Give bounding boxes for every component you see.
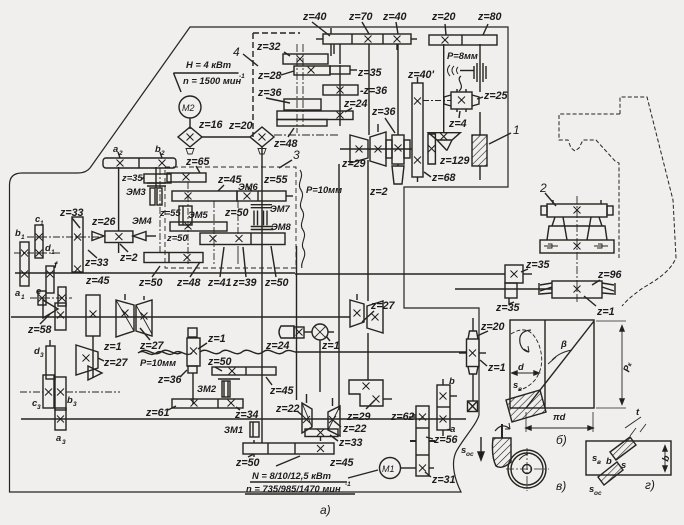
gear z35 lower [505, 283, 517, 304]
lead screw P=10mm vertical wavy [299, 170, 304, 268]
gear z=35 small [141, 174, 171, 205]
svg-text:ЭМ8: ЭМ8 [271, 221, 292, 232]
svg-text:г): г) [645, 478, 655, 492]
vertical shaft x193 down [192, 373, 194, 404]
clutch EM7 EM8 [251, 205, 274, 230]
vertical x369 from top bar [368, 50, 370, 135]
bevel z129 pair [428, 133, 460, 164]
svg-text:ЭМ5: ЭМ5 [188, 209, 209, 220]
svg-text:z=35: z=35 [495, 302, 521, 314]
gear circle [506, 448, 549, 491]
svg-text:z=2: z=2 [369, 186, 388, 198]
gear a3 [55, 408, 66, 430]
svg-text:z=20: z=20 [480, 321, 505, 333]
table pedestal [547, 217, 607, 240]
svg-text:ЭМ3: ЭМ3 [126, 186, 147, 197]
svg-text:z=33: z=33 [338, 437, 363, 449]
svg-text:z=20: z=20 [228, 120, 253, 132]
gear f [46, 266, 54, 293]
rotation arrow [520, 330, 531, 352]
svg-text:3: 3 [293, 148, 300, 162]
gear bar bottom z50 z45 [243, 440, 334, 457]
svg-text:z=56: z=56 [433, 434, 458, 446]
svg-text:-а: -а [447, 423, 455, 434]
bevel pair z27 center-right [350, 294, 383, 380]
gear z=36 mid bar [323, 85, 358, 95]
svg-text:z=58: z=58 [27, 324, 52, 336]
svg-text:z=20: z=20 [431, 11, 456, 23]
svg-text:3: 3 [73, 401, 77, 408]
gear z=33 tall [72, 217, 83, 273]
svg-text:б): б) [556, 433, 567, 447]
svg-text:z=1: z=1 [207, 333, 226, 345]
svg-text:t: t [636, 406, 640, 417]
shaft to bevel z129 [443, 44, 445, 133]
worm z1 z96 table [539, 281, 615, 298]
bevel pair z29 top [350, 124, 386, 166]
arrow down feed [478, 437, 484, 460]
svg-text:z=1: z=1 [103, 341, 122, 353]
hatched chip bottom [598, 462, 623, 485]
hob profile hatched [492, 438, 511, 467]
svg-text:3: 3 [37, 404, 41, 411]
flexible shaft squiggle [459, 76, 461, 91]
table top bar [541, 200, 613, 217]
shaft y237 [27, 236, 100, 238]
bevel pair big [116, 294, 152, 337]
svg-text:b: b [606, 455, 612, 466]
svg-text:z=26: z=26 [91, 216, 116, 228]
long shaft y273 [15, 272, 295, 274]
svg-text:z=2: z=2 [119, 252, 138, 264]
svg-text:s: s [621, 459, 626, 470]
svg-text:z=55: z=55 [159, 207, 181, 218]
svg-text:z=50: z=50 [138, 277, 163, 289]
svg-text:z=34: z=34 [234, 409, 259, 421]
beta angle [552, 350, 572, 360]
svg-text:Р=8мм: Р=8мм [447, 50, 478, 61]
motor M1 [380, 458, 401, 479]
svg-text:z=68: z=68 [431, 172, 456, 184]
svg-text:z=22: z=22 [342, 423, 367, 435]
svg-text:z=33: z=33 [59, 207, 84, 219]
gear d3 [46, 340, 55, 379]
hatched chip top [610, 437, 636, 460]
svg-text:n = 735/985/1470 мин: n = 735/985/1470 мин [246, 483, 341, 494]
svg-text:z=1: z=1 [596, 306, 615, 318]
rotation arrow hob [495, 426, 510, 431]
svg-text:z=55: z=55 [263, 174, 289, 186]
bevel z=16 diamond [178, 127, 202, 154]
svg-text:ЭМ4: ЭМ4 [132, 215, 153, 226]
svg-text:z=45: z=45 [329, 457, 355, 469]
gear z=48 bar big [277, 108, 353, 126]
svg-text:a: a [56, 432, 61, 443]
gear bar z61 z34 [172, 399, 243, 408]
axis to right of z20 [274, 134, 340, 136]
gear z36 on vertical [386, 135, 410, 164]
svg-text:ЗМ2: ЗМ2 [197, 383, 217, 394]
svg-text:d: d [518, 361, 524, 372]
machine bed outline [10, 27, 509, 492]
svg-text:z=96: z=96 [597, 269, 622, 281]
top gear bar I [312, 22, 417, 44]
t dimension [625, 406, 646, 436]
wavy screw long y352 [140, 350, 295, 353]
shaft EM4 vertical [118, 167, 120, 231]
shaft y352 to right [295, 351, 466, 353]
svg-text:z=45: z=45 [85, 275, 111, 287]
d dimension [512, 361, 539, 375]
svg-text:z=61: z=61 [145, 407, 170, 419]
shaft x398 top [397, 44, 399, 135]
svg-text:1: 1 [51, 249, 55, 256]
rect development [510, 320, 594, 408]
gear z=65 bar [167, 166, 206, 182]
gear e [38, 291, 46, 305]
svg-text:z=36: z=36 [257, 87, 282, 99]
worm z=24 and handwheel [279, 326, 312, 338]
svg-text:1: 1 [21, 294, 25, 301]
svg-text:β: β [560, 338, 567, 349]
svg-text:4: 4 [233, 45, 240, 59]
svg-text:M1: M1 [382, 464, 395, 474]
hob 1 (mill) [472, 112, 487, 180]
svg-text:z=1: z=1 [487, 362, 506, 374]
hatched tooth [506, 390, 546, 422]
svg-text:z=27: z=27 [103, 357, 129, 369]
handwheel [312, 324, 334, 340]
svg-text:1: 1 [21, 234, 25, 241]
svg-text:a: a [15, 287, 20, 298]
svg-text:z=29: z=29 [346, 411, 371, 423]
reverse bevel cluster z22 z33 [302, 394, 340, 441]
svg-text:b: b [449, 375, 455, 386]
svg-text:z=27: z=27 [370, 300, 396, 312]
svg-text:в): в) [556, 479, 566, 493]
table base [540, 240, 614, 253]
clutch ZM2 symbol [218, 379, 240, 397]
bevel z=27 lower [76, 345, 102, 380]
svg-text:z=70: z=70 [348, 11, 373, 23]
svg-text:z=80: z=80 [477, 11, 502, 23]
tall gear z40/z68 [412, 77, 423, 182]
shaft y298 [30, 297, 72, 299]
table axis vertical [576, 196, 578, 302]
gear bar row3 [170, 222, 227, 231]
svg-text:z=50: z=50 [224, 207, 249, 219]
svg-text:-1: -1 [239, 73, 245, 80]
gear bar row5 [144, 253, 203, 263]
svg-text:z=39: z=39 [232, 277, 257, 289]
gear z35 box [505, 265, 532, 283]
shaft M2 to z20 [202, 136, 250, 138]
svg-text:ЗМ1: ЗМ1 [224, 424, 243, 435]
svg-text:z=35: z=35 [357, 67, 383, 79]
shaft y253 [14, 252, 60, 254]
gear b a change [437, 379, 457, 436]
svg-text:а): а) [320, 503, 331, 517]
svg-text:z=16: z=16 [198, 119, 223, 131]
svg-text:ос: ос [466, 451, 474, 458]
gear bar row4 [200, 233, 285, 245]
b dim right [659, 446, 671, 471]
svg-text:N = 8/10/12,5 кВт: N = 8/10/12,5 кВт [252, 470, 331, 481]
svg-text:z=32: z=32 [256, 41, 281, 53]
svg-text:в: в [597, 459, 601, 466]
svg-text:z=4: z=4 [448, 118, 467, 130]
svg-text:z=28: z=28 [257, 70, 282, 82]
shaft y392 [20, 391, 120, 393]
svg-text:ос: ос [594, 490, 602, 497]
svg-text:z=29: z=29 [341, 158, 366, 170]
svg-text:ЭМ7: ЭМ7 [270, 203, 291, 214]
worm z=1 on vertical [187, 328, 200, 373]
vertical shaft x296 [296, 246, 298, 400]
shaft stubs below bar I [330, 44, 332, 56]
svg-text:-z=36: -z=36 [360, 85, 387, 97]
svg-text:z=65: z=65 [185, 156, 211, 168]
wavy screw P=10mm horizontal [138, 352, 192, 355]
svg-text:в: в [518, 386, 522, 393]
svg-text:z=48: z=48 [176, 277, 201, 289]
shaft y317 [11, 316, 350, 318]
vertical shaft x320 [319, 340, 321, 392]
svg-text:z=22: z=22 [275, 403, 300, 415]
svg-text:z=50: z=50 [235, 457, 260, 469]
motor M2 [179, 96, 201, 129]
feedbox shaft axes [160, 168, 238, 264]
svg-text:z=24: z=24 [343, 98, 368, 110]
svg-text:z=36: z=36 [371, 106, 396, 118]
svg-text:z=33: z=33 [84, 257, 109, 269]
axis dash-dot vertical x300 [296, 44, 298, 133]
svg-text:P=10мм: P=10мм [306, 184, 342, 195]
feed vertical shaft [261, 147, 263, 443]
shaft M1 to z62 [400, 467, 416, 469]
gear a1 [58, 287, 66, 306]
top gear bar II [429, 24, 497, 45]
svg-text:z=31: z=31 [431, 474, 456, 486]
svg-text:n = 1500 мин: n = 1500 мин [183, 75, 242, 86]
svg-text:z=50: z=50 [207, 356, 232, 368]
vertical divider lines center [338, 164, 340, 410]
svg-text:z=35: z=35 [525, 259, 551, 271]
shaft x340 [333, 44, 335, 54]
gear z62 column [409, 406, 435, 476]
svg-text:z=25: z=25 [483, 90, 509, 102]
svg-text:z=40: z=40 [382, 11, 407, 23]
helix arc [511, 330, 542, 390]
long shaft y274 right [295, 273, 505, 275]
gear bar z=50 z=45 [212, 367, 276, 375]
frame 3 dashed [165, 167, 296, 268]
svg-text:πd: πd [553, 411, 566, 422]
axis tall gear to worm wheel [423, 100, 451, 102]
gear bar a2b2 [103, 152, 176, 168]
shaft y419 long [21, 418, 466, 420]
gear z=58 cluster [43, 300, 66, 330]
svg-text:z=50: z=50 [166, 232, 188, 243]
svg-text:1: 1 [513, 123, 520, 137]
svg-text:z=1: z=1 [321, 340, 340, 352]
shaft y289 [455, 288, 552, 290]
vertical x368 [367, 160, 369, 301]
gear z=36 bottom bar [266, 98, 321, 110]
shaft y149 [340, 148, 412, 150]
svg-text:-1: -1 [345, 481, 351, 488]
svg-text:Pк: Pк [620, 360, 634, 373]
frame 4 dashed [252, 33, 254, 137]
worm z=2 [392, 164, 404, 184]
gear b1 [20, 242, 29, 286]
svg-text:z=129: z=129 [439, 155, 469, 167]
bottom dim [526, 412, 593, 432]
svg-text:3: 3 [40, 352, 44, 359]
gear bar row2b [237, 191, 293, 201]
gear z20 z1 vertical [459, 318, 486, 401]
gear z=32 bar [283, 52, 328, 64]
svg-text:3: 3 [62, 439, 66, 446]
svg-text:z=35: z=35 [121, 172, 143, 183]
svg-text:z=50: z=50 [264, 277, 289, 289]
clutch EM4 [92, 231, 156, 253]
svg-text:z=36: z=36 [157, 374, 182, 386]
svg-text:z=62: z=62 [390, 411, 415, 423]
gear center vertical on y317 [86, 295, 100, 378]
column outline [620, 97, 676, 306]
gear z=28/z=35 bars [281, 66, 357, 75]
svg-text:M2: M2 [182, 103, 195, 113]
frame change-gear (guitar) [349, 380, 392, 406]
clutch ZM1 [250, 422, 259, 437]
svg-text:z=45: z=45 [269, 385, 295, 397]
Pk dim right [596, 321, 634, 408]
svg-text:Н = 4 кВт: Н = 4 кВт [186, 59, 231, 70]
worm wheel z25 z4 [444, 89, 479, 112]
gear c3 col [43, 375, 54, 408]
svg-text:z=40': z=40' [407, 69, 434, 81]
bevel z=20 diamond [250, 127, 274, 154]
gear b3 col [55, 377, 66, 410]
gear box end [468, 401, 478, 412]
coupling on x480 [474, 44, 486, 92]
gear c1 d1 [35, 225, 43, 258]
svg-text:P=10мм: P=10мм [140, 357, 176, 368]
clutch small left [179, 206, 192, 225]
gear bar row2 [172, 185, 252, 201]
svg-text:z=40: z=40 [302, 11, 327, 23]
svg-text:z=41: z=41 [207, 277, 232, 289]
